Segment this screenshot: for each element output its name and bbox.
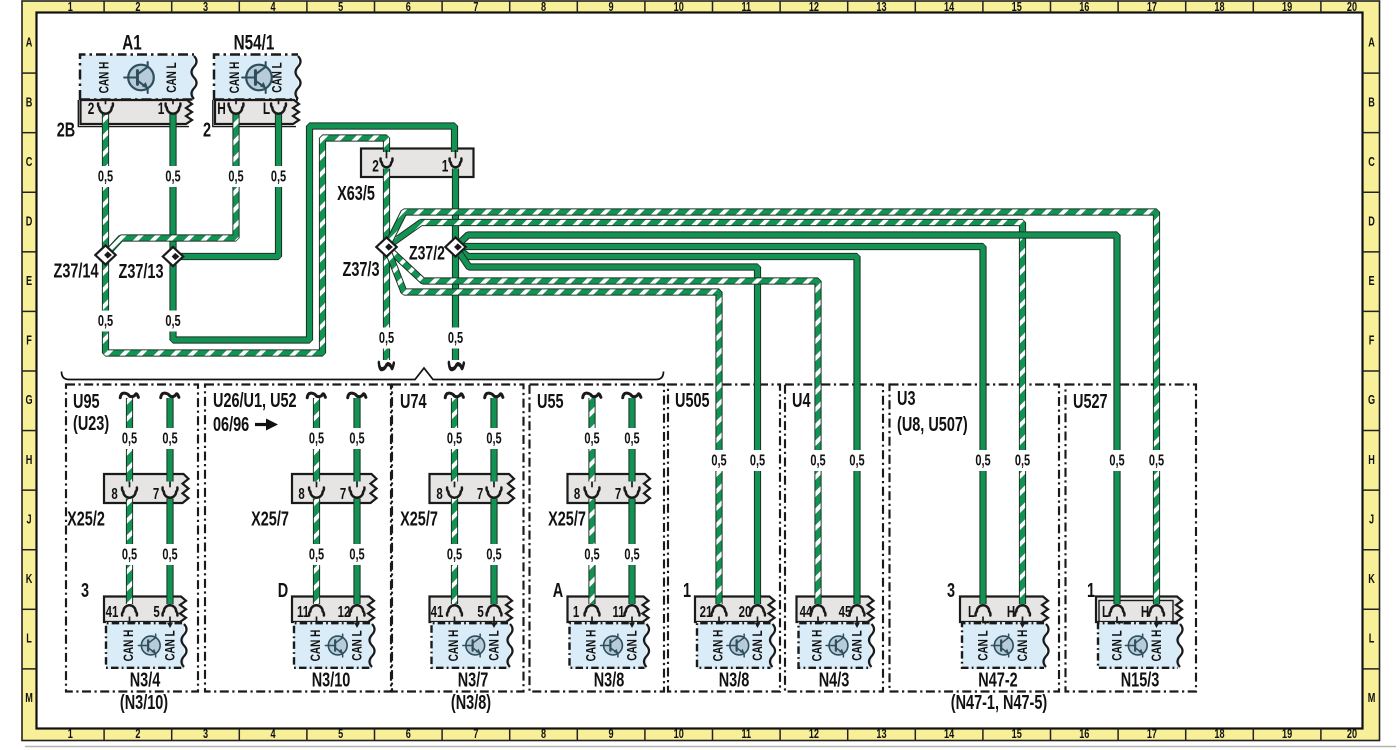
svg-text:0,5: 0,5 — [448, 329, 464, 346]
svg-text:C: C — [1368, 156, 1375, 170]
svg-text:CAN H: CAN H — [710, 630, 726, 662]
svg-text:0,5: 0,5 — [165, 312, 181, 329]
svg-text:7: 7 — [615, 484, 622, 502]
svg-text:CAN H: CAN H — [1148, 630, 1164, 662]
svg-text:U55: U55 — [537, 390, 564, 413]
svg-text:0,5: 0,5 — [711, 452, 727, 469]
svg-text:3: 3 — [81, 579, 89, 602]
svg-text:D: D — [26, 215, 33, 229]
svg-text:K: K — [1368, 573, 1375, 587]
svg-text:H: H — [1368, 453, 1375, 467]
svg-text:E: E — [26, 275, 32, 289]
svg-text:8: 8 — [298, 484, 305, 502]
svg-text:CAN H: CAN H — [96, 62, 112, 94]
svg-text:0,5: 0,5 — [228, 168, 244, 185]
svg-text:2: 2 — [203, 118, 211, 141]
svg-text:A1: A1 — [122, 30, 142, 54]
svg-text:B: B — [1368, 96, 1375, 110]
svg-text:Z37/3: Z37/3 — [343, 258, 380, 281]
svg-text:1: 1 — [683, 579, 691, 602]
svg-text:5: 5 — [338, 728, 343, 742]
svg-text:CAN L: CAN L — [349, 630, 365, 661]
svg-text:(U8, U507): (U8, U507) — [897, 413, 968, 436]
svg-text:0,5: 0,5 — [584, 430, 600, 447]
svg-text:9: 9 — [609, 728, 614, 742]
svg-text:CAN L: CAN L — [975, 630, 991, 661]
svg-text:G: G — [1368, 394, 1375, 408]
svg-text:19: 19 — [1282, 1, 1292, 15]
svg-text:X25/7: X25/7 — [251, 507, 289, 530]
svg-text:N54/1: N54/1 — [234, 30, 275, 54]
svg-text:(U23): (U23) — [73, 412, 109, 435]
svg-text:6: 6 — [406, 728, 411, 742]
svg-text:12: 12 — [338, 602, 351, 620]
svg-text:U505: U505 — [675, 389, 710, 412]
svg-text:E: E — [1368, 275, 1374, 289]
svg-text:0,5: 0,5 — [486, 546, 502, 563]
svg-text:2: 2 — [135, 1, 140, 15]
svg-text:U74: U74 — [400, 390, 427, 413]
svg-text:0,5: 0,5 — [349, 546, 365, 563]
svg-text:0,5: 0,5 — [309, 546, 325, 563]
svg-text:0,5: 0,5 — [624, 430, 640, 447]
svg-text:CAN H: CAN H — [1014, 630, 1030, 662]
svg-text:8: 8 — [541, 1, 546, 15]
svg-text:4: 4 — [271, 728, 277, 742]
svg-text:1: 1 — [68, 1, 73, 15]
svg-text:U3: U3 — [897, 387, 916, 410]
svg-text:1: 1 — [1087, 579, 1095, 602]
svg-text:N15/3: N15/3 — [1121, 668, 1160, 691]
svg-text:2: 2 — [372, 158, 379, 176]
svg-text:0,5: 0,5 — [1149, 452, 1165, 469]
svg-text:0,5: 0,5 — [447, 430, 463, 447]
svg-text:11: 11 — [741, 728, 751, 742]
svg-text:0,5: 0,5 — [98, 168, 114, 185]
svg-text:3: 3 — [203, 1, 208, 15]
svg-text:06/96: 06/96 — [213, 413, 249, 436]
svg-text:12: 12 — [809, 1, 819, 15]
svg-text:0,5: 0,5 — [349, 430, 365, 447]
svg-text:0,5: 0,5 — [162, 546, 178, 563]
svg-text:(N3/10): (N3/10) — [120, 691, 168, 714]
svg-text:5: 5 — [338, 1, 343, 15]
svg-text:Z37/13: Z37/13 — [118, 260, 163, 283]
svg-text:L: L — [968, 602, 975, 620]
svg-text:7: 7 — [473, 1, 478, 15]
svg-text:8: 8 — [111, 484, 118, 502]
svg-text:8: 8 — [436, 484, 443, 502]
svg-text:7: 7 — [340, 484, 347, 502]
svg-text:CAN H: CAN H — [445, 630, 461, 662]
svg-text:U26/U1, U52: U26/U1, U52 — [213, 389, 297, 412]
svg-text:0,5: 0,5 — [122, 546, 138, 563]
svg-text:14: 14 — [944, 1, 955, 15]
svg-text:21: 21 — [700, 602, 713, 620]
svg-text:0,5: 0,5 — [810, 452, 826, 469]
svg-text:C: C — [26, 156, 33, 170]
svg-text:0,5: 0,5 — [271, 168, 287, 185]
svg-text:H: H — [1141, 602, 1149, 620]
svg-text:7: 7 — [477, 484, 484, 502]
svg-text:G: G — [25, 394, 32, 408]
svg-text:U4: U4 — [792, 389, 811, 412]
svg-text:CAN H: CAN H — [583, 630, 599, 662]
svg-text:J: J — [1369, 513, 1374, 527]
svg-text:9: 9 — [609, 1, 614, 15]
svg-text:CAN H: CAN H — [809, 630, 825, 662]
svg-text:7: 7 — [153, 484, 160, 502]
svg-text:19: 19 — [1282, 728, 1292, 742]
svg-text:L: L — [263, 100, 270, 118]
svg-text:13: 13 — [876, 1, 886, 15]
svg-text:N3/4: N3/4 — [130, 668, 161, 691]
svg-text:4: 4 — [271, 1, 277, 15]
svg-text:0,5: 0,5 — [379, 329, 395, 346]
svg-text:CAN H: CAN H — [120, 630, 136, 662]
svg-text:N3/8: N3/8 — [594, 668, 625, 691]
svg-text:A: A — [553, 579, 564, 602]
svg-text:U95: U95 — [73, 390, 100, 413]
svg-text:0,5: 0,5 — [162, 430, 178, 447]
svg-text:1: 1 — [68, 728, 73, 742]
svg-text:L: L — [1369, 632, 1375, 646]
svg-text:20: 20 — [1347, 728, 1357, 742]
svg-text:CAN L: CAN L — [849, 630, 865, 661]
svg-text:H: H — [26, 453, 33, 467]
svg-text:N3/8: N3/8 — [719, 668, 750, 691]
svg-text:12: 12 — [809, 728, 819, 742]
svg-text:2: 2 — [135, 728, 140, 742]
svg-text:CAN L: CAN L — [486, 630, 502, 661]
svg-text:N3/10: N3/10 — [312, 668, 351, 691]
svg-text:10: 10 — [674, 1, 684, 15]
svg-text:L: L — [26, 632, 32, 646]
svg-text:7: 7 — [473, 728, 478, 742]
svg-text:CAN L: CAN L — [624, 630, 640, 661]
svg-text:0,5: 0,5 — [486, 430, 502, 447]
svg-text:N47-2: N47-2 — [978, 668, 1018, 691]
svg-text:1: 1 — [442, 158, 449, 176]
svg-text:CAN L: CAN L — [163, 62, 179, 93]
svg-text:X63/5: X63/5 — [337, 182, 375, 205]
svg-text:3: 3 — [947, 579, 955, 602]
svg-text:A: A — [26, 36, 33, 50]
svg-text:B: B — [26, 96, 33, 110]
svg-text:1: 1 — [158, 100, 165, 118]
svg-text:2B: 2B — [57, 118, 75, 141]
svg-text:F: F — [1369, 334, 1375, 348]
svg-text:M: M — [1368, 692, 1376, 706]
svg-text:6: 6 — [406, 1, 411, 15]
svg-text:15: 15 — [1012, 1, 1022, 15]
svg-text:14: 14 — [944, 728, 955, 742]
svg-text:16: 16 — [1079, 728, 1089, 742]
svg-text:16: 16 — [1079, 1, 1089, 15]
svg-text:CAN H: CAN H — [307, 630, 323, 662]
svg-text:H: H — [1007, 602, 1015, 620]
svg-text:41: 41 — [106, 602, 119, 620]
svg-text:5: 5 — [153, 602, 160, 620]
svg-text:11: 11 — [741, 1, 751, 15]
svg-text:0,5: 0,5 — [1015, 452, 1031, 469]
svg-text:K: K — [26, 573, 33, 587]
svg-text:X25/7: X25/7 — [400, 507, 438, 530]
svg-text:X25/2: X25/2 — [67, 507, 105, 530]
svg-text:Z37/2: Z37/2 — [409, 242, 445, 264]
svg-text:N3/7: N3/7 — [458, 668, 489, 691]
svg-text:(N3/8): (N3/8) — [451, 691, 491, 714]
svg-text:0,5: 0,5 — [624, 546, 640, 563]
svg-text:U527: U527 — [1073, 390, 1108, 413]
svg-text:1: 1 — [573, 602, 580, 620]
svg-text:J: J — [26, 513, 31, 527]
svg-text:0,5: 0,5 — [849, 452, 865, 469]
svg-text:N4/3: N4/3 — [819, 668, 850, 691]
svg-text:8: 8 — [541, 728, 546, 742]
svg-text:18: 18 — [1214, 1, 1224, 15]
svg-text:0,5: 0,5 — [1109, 452, 1125, 469]
svg-text:D: D — [1368, 215, 1375, 229]
svg-text:D: D — [278, 579, 288, 602]
svg-text:0,5: 0,5 — [165, 168, 181, 185]
svg-text:5: 5 — [477, 602, 484, 620]
svg-text:0,5: 0,5 — [584, 546, 600, 563]
svg-text:(N47-1, N47-5): (N47-1, N47-5) — [951, 691, 1047, 714]
svg-text:F: F — [26, 334, 32, 348]
svg-text:0,5: 0,5 — [750, 452, 766, 469]
svg-text:M: M — [25, 692, 33, 706]
svg-text:3: 3 — [203, 728, 208, 742]
svg-text:11: 11 — [297, 602, 309, 620]
svg-text:H: H — [217, 100, 226, 118]
svg-text:8: 8 — [574, 484, 581, 502]
svg-text:2: 2 — [88, 100, 95, 118]
svg-text:17: 17 — [1147, 728, 1157, 742]
svg-text:11: 11 — [612, 602, 624, 620]
svg-text:0,5: 0,5 — [447, 546, 463, 563]
svg-text:A: A — [1368, 36, 1375, 50]
svg-text:X25/7: X25/7 — [548, 507, 586, 530]
svg-text:0,5: 0,5 — [98, 312, 114, 329]
svg-text:L: L — [1102, 602, 1109, 620]
svg-text:CAN L: CAN L — [749, 630, 765, 661]
svg-text:CAN H: CAN H — [226, 62, 242, 94]
svg-text:15: 15 — [1012, 728, 1022, 742]
svg-text:CAN L: CAN L — [162, 630, 178, 661]
svg-text:10: 10 — [674, 728, 684, 742]
svg-text:0,5: 0,5 — [122, 430, 138, 447]
svg-text:13: 13 — [876, 728, 886, 742]
svg-text:18: 18 — [1214, 728, 1224, 742]
svg-text:Z37/14: Z37/14 — [53, 259, 98, 282]
svg-text:17: 17 — [1147, 1, 1157, 15]
svg-text:0,5: 0,5 — [309, 430, 325, 447]
svg-text:0,5: 0,5 — [975, 452, 991, 469]
svg-text:41: 41 — [431, 602, 444, 620]
svg-text:CAN L: CAN L — [1109, 630, 1125, 661]
svg-text:20: 20 — [1347, 1, 1357, 15]
